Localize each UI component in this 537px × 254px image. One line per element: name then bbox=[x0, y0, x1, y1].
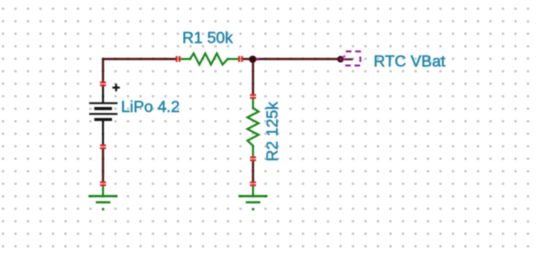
resistor R2 zigzag body (vertical) bbox=[247, 98, 258, 157]
RTC VBat pin dot magenta core bbox=[339, 58, 343, 60]
resistor R2 pin1 tick (top) bbox=[250, 95, 256, 98]
wire: R1 pin2 to junction node bbox=[242, 58, 254, 60]
wire: junction node to RTC VBat pin bbox=[253, 58, 341, 60]
resistor R1 pin1 tick bbox=[177, 56, 180, 62]
svg-text:RTC VBat: RTC VBat bbox=[374, 54, 446, 71]
battery + sign bbox=[112, 84, 119, 91]
RTC VBat port magenta tip at pin dot bbox=[343, 58, 345, 60]
junction magenta mark bbox=[256, 58, 259, 60]
left ground pin tick bbox=[100, 182, 106, 185]
wire: R2 pin2 down to right ground bbox=[252, 161, 254, 183]
battery pin2 terminal tick (bottom) bbox=[100, 145, 106, 148]
resistor R1 zigzag body bbox=[180, 53, 239, 64]
RTC VBat pin magenta diagonal nick bbox=[343, 55, 346, 58]
svg-text:R1 50k: R1 50k bbox=[182, 30, 234, 47]
right ground pin tick bbox=[250, 182, 256, 185]
battery BT1 (LiPo 4.2) plates and stubs bbox=[89, 86, 117, 145]
svg-text:LiPo 4.2: LiPo 4.2 bbox=[121, 99, 180, 116]
junction node at R1/R2/wire bbox=[249, 56, 256, 63]
RTC VBat port inner pin dash bbox=[345, 58, 353, 60]
battery pin1 terminal tick (top) bbox=[100, 82, 106, 85]
wire: battery top to R1 (L-shaped segment) bbox=[103, 59, 177, 83]
right ground symbol bbox=[239, 186, 268, 203]
RTC VBat port dashed box bbox=[345, 51, 361, 65]
resistor R2 pin2 tick (bottom) bbox=[250, 157, 256, 160]
wire: battery bottom to left ground bbox=[102, 149, 104, 183]
left ground symbol bbox=[89, 186, 118, 203]
wire: junction node down to R2 pin1 bbox=[252, 59, 254, 94]
RTC VBat pin end dot bbox=[337, 56, 344, 63]
resistor R1 pin2 tick bbox=[239, 56, 242, 62]
svg-text:R2 125k: R2 125k bbox=[265, 101, 282, 162]
